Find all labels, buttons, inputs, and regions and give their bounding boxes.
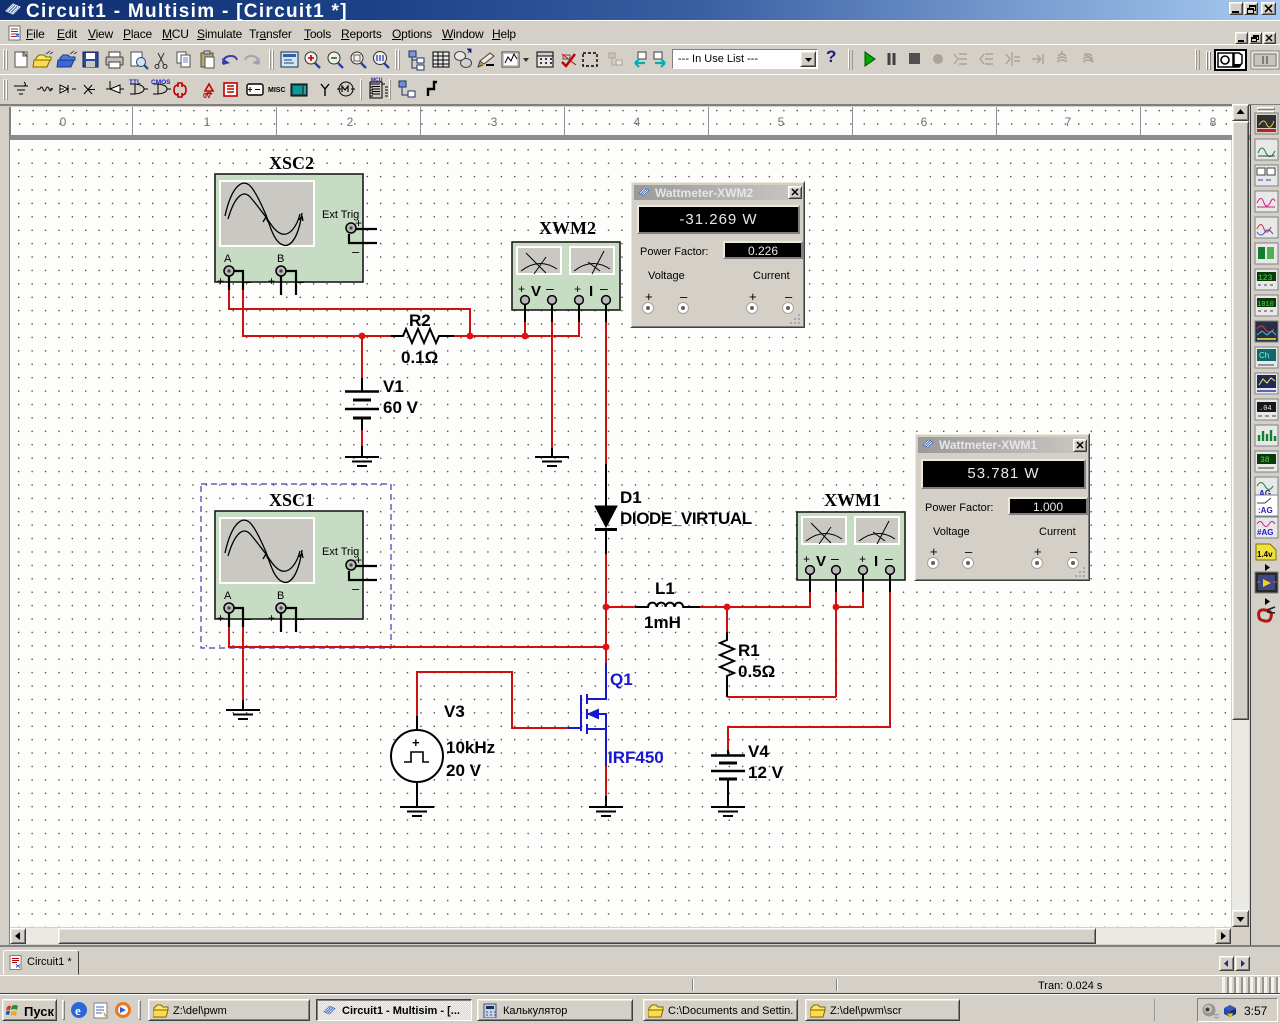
svg-text:XSC2: XSC2 xyxy=(269,153,314,173)
svg-text:3: 3 xyxy=(491,115,498,129)
new xyxy=(15,52,27,67)
vertical scrollbar xyxy=(1232,104,1249,927)
svg-text:–: – xyxy=(297,611,305,626)
svg-text:A: A xyxy=(224,590,232,602)
svg-text:0v: 0v xyxy=(203,93,211,100)
svg-text:B: B xyxy=(277,253,284,265)
svg-text:Ext Trig: Ext Trig xyxy=(322,209,359,221)
wire XWM1 -I to V4 xyxy=(728,592,890,750)
svg-text:B: B xyxy=(277,590,284,602)
wire R2 right to XWM2 +I xyxy=(454,322,579,336)
svg-text:–: – xyxy=(885,550,893,566)
diode D1 xyxy=(595,464,617,554)
svg-text:V: V xyxy=(816,553,826,570)
grapher xyxy=(502,52,519,67)
database xyxy=(455,49,472,68)
wire XSC1 A- to ground xyxy=(242,627,244,700)
pulse source V3 xyxy=(391,716,443,796)
postprocessor xyxy=(537,52,553,67)
svg-text:1.4v: 1.4v xyxy=(1257,550,1273,559)
print xyxy=(106,52,123,68)
svg-text:Ext Trig: Ext Trig xyxy=(322,546,359,558)
ground V1 xyxy=(345,446,379,466)
svg-text:+: + xyxy=(803,552,810,566)
toolbar row 1 xyxy=(0,44,1280,74)
svg-text:4: 4 xyxy=(634,115,641,129)
svg-text::AG: :AG xyxy=(1258,506,1273,515)
svg-text:MCU: MCU xyxy=(371,78,383,84)
ground V3 xyxy=(400,781,434,816)
oscilloscope XSC1 xyxy=(215,511,377,632)
svg-text:L1: L1 xyxy=(655,579,675,598)
svg-text:10kHz: 10kHz xyxy=(446,738,495,757)
svg-text:V4: V4 xyxy=(748,742,769,761)
right instruments toolbar xyxy=(1250,105,1280,945)
inductor L1 xyxy=(635,603,700,607)
wire R1 bottom to XWM1 -V xyxy=(727,696,836,698)
XSC2 channel A minus pin xyxy=(234,271,243,290)
main window title bar xyxy=(0,0,1280,20)
svg-text:#AG: #AG xyxy=(1257,528,1273,537)
paste xyxy=(201,51,214,68)
open project xyxy=(57,51,77,67)
zoom in xyxy=(305,52,320,68)
svg-text:e: e xyxy=(75,1003,81,1018)
horizontal ruler xyxy=(10,107,1232,135)
ground XSC1 A- xyxy=(226,700,260,719)
svg-text:8: 8 xyxy=(1210,115,1217,129)
red gap V1 bottom xyxy=(361,430,363,446)
svg-text:CMOS: CMOS xyxy=(151,79,171,86)
ground V4 xyxy=(711,779,745,816)
svg-text:1mH: 1mH xyxy=(644,613,681,632)
svg-text:V3: V3 xyxy=(444,702,465,721)
wire XWM1 +I to -V node xyxy=(836,592,863,607)
wire XWM1 -V vertical xyxy=(835,592,837,697)
svg-text:XWM1: XWM1 xyxy=(824,490,881,510)
svg-text:–: – xyxy=(831,550,839,566)
svg-text:60 V: 60 V xyxy=(383,398,419,417)
svg-text:Q1: Q1 xyxy=(610,670,633,689)
save xyxy=(83,52,98,67)
wire D1 cathode to MOSFET drain xyxy=(605,554,607,663)
toolbar row 2 xyxy=(0,74,1280,105)
svg-text:20 V: 20 V xyxy=(446,761,482,780)
svg-text:–: – xyxy=(352,581,360,596)
resistor R1 xyxy=(720,632,734,697)
XSC2 channel A plus pin xyxy=(228,276,230,290)
svg-text:1: 1 xyxy=(204,115,211,129)
svg-text:XSC1: XSC1 xyxy=(269,490,314,510)
wire XWM2 +V down xyxy=(524,322,526,336)
wire V3 to Q1 gate xyxy=(417,672,568,728)
svg-text:0: 0 xyxy=(60,115,67,129)
wire XSC2 A+ to R2 right node xyxy=(229,290,470,336)
wire L1 left xyxy=(606,606,635,608)
ground XWM2 -V xyxy=(535,448,569,466)
preview xyxy=(131,52,148,69)
junction L1 R1 xyxy=(724,604,731,611)
svg-text:–: – xyxy=(546,280,554,296)
XSC1 channel A plus pin xyxy=(228,613,230,627)
svg-text:V1: V1 xyxy=(383,377,404,396)
junction XSC1 node xyxy=(603,644,610,651)
svg-text:–: – xyxy=(297,274,305,289)
svg-text:0.1Ω: 0.1Ω xyxy=(401,348,438,367)
left margin strip xyxy=(9,107,10,945)
hierarchy xyxy=(409,51,424,70)
wire R1 node to XWM1 +V xyxy=(727,592,810,607)
svg-text:A: A xyxy=(224,253,232,265)
svg-text:–: – xyxy=(244,611,252,626)
horizontal scrollbar xyxy=(10,928,1231,944)
svg-text:2: 2 xyxy=(347,115,354,129)
svg-text:5: 5 xyxy=(778,115,785,129)
wattmeter XWM1 xyxy=(797,512,905,592)
Wattmeter-XWM1 dialog xyxy=(914,433,1090,581)
svg-text:1010: 1010 xyxy=(1257,301,1274,309)
wire Q1 source red xyxy=(605,766,607,796)
svg-text:7: 7 xyxy=(1065,115,1072,129)
junction XWM1 -V xyxy=(833,604,840,611)
Wattmeter-XWM2 dialog xyxy=(630,181,805,328)
svg-text:–: – xyxy=(600,280,608,296)
svg-text:Ch: Ch xyxy=(1259,351,1269,360)
transfer (disabled) xyxy=(609,53,622,65)
svg-text:38: 38 xyxy=(1260,456,1270,465)
copy xyxy=(177,52,190,67)
sheet tab row xyxy=(0,947,1280,975)
svg-text:+: + xyxy=(217,611,224,625)
svg-text:0.5Ω: 0.5Ω xyxy=(738,662,775,681)
resistor R2 xyxy=(391,329,454,343)
svg-text:+: + xyxy=(268,274,275,288)
svg-text:I: I xyxy=(589,283,593,300)
svg-text:+: + xyxy=(412,735,420,750)
wire XSC2 A- to R2 left xyxy=(243,290,391,336)
wire XWM2 -V to ground xyxy=(551,322,553,448)
ruler lower bar xyxy=(10,135,1250,140)
svg-text:+: + xyxy=(518,282,525,296)
svg-text:R1: R1 xyxy=(738,641,760,660)
ERC xyxy=(562,54,576,66)
zoom out xyxy=(328,52,343,68)
svg-text:123: 123 xyxy=(1258,274,1273,283)
XSC1 channel A minus pin xyxy=(234,608,243,627)
ground Q1 source xyxy=(589,796,623,816)
sheet bottom border xyxy=(0,945,1280,947)
svg-text:XWM2: XWM2 xyxy=(539,218,596,238)
cut xyxy=(155,53,167,69)
wire XSC1 A+ to drain node xyxy=(229,627,606,647)
battery V1 xyxy=(345,378,379,446)
open xyxy=(33,51,53,67)
oscilloscope XSC2 xyxy=(215,174,377,295)
region select xyxy=(583,53,597,66)
svg-text:–: – xyxy=(244,274,252,289)
edge line under toolbars xyxy=(0,105,1280,107)
svg-text:.04: .04 xyxy=(1259,405,1272,413)
svg-text:TTL: TTL xyxy=(129,79,141,86)
menu bar xyxy=(0,20,1280,44)
svg-text:+: + xyxy=(859,552,866,566)
battery V4 xyxy=(711,750,745,784)
svg-text:–: – xyxy=(352,244,360,259)
junction L1 drain xyxy=(603,604,610,611)
svg-text:IRF450: IRF450 xyxy=(608,748,664,767)
taskbar xyxy=(0,994,1280,1024)
junction R2-V1 xyxy=(359,333,366,340)
zoom area xyxy=(351,52,366,68)
status bar xyxy=(0,975,1280,994)
redo xyxy=(245,56,260,65)
zoom full xyxy=(374,52,390,69)
wire V1 branch xyxy=(361,336,363,378)
svg-text:+: + xyxy=(574,282,581,296)
mosfet Q1 xyxy=(568,663,606,766)
wire XWM2 -I down to D1 xyxy=(605,322,607,464)
svg-text:V: V xyxy=(531,283,541,300)
selection box around XSC1 xyxy=(201,484,391,648)
properties window xyxy=(281,52,298,67)
junction R2 right xyxy=(467,333,474,340)
svg-text:R2: R2 xyxy=(409,311,431,330)
backannotate xyxy=(635,52,646,67)
canvas sheet xyxy=(10,140,1231,927)
svg-text:12 V: 12 V xyxy=(748,763,784,782)
wire L1 right to R1 node xyxy=(700,606,727,608)
wattmeter XWM2 xyxy=(512,242,620,322)
forward annotate xyxy=(654,52,665,67)
svg-text:DIODE_VIRTUAL: DIODE_VIRTUAL xyxy=(620,509,752,528)
svg-text:+: + xyxy=(217,274,224,288)
svg-text:D1: D1 xyxy=(620,488,642,507)
svg-text:MISC: MISC xyxy=(268,87,286,94)
svg-text:+: + xyxy=(268,611,275,625)
wire R1 top lead xyxy=(726,607,728,632)
svg-text:I: I xyxy=(874,553,878,570)
undo xyxy=(222,56,237,65)
spreadsheet xyxy=(433,52,449,67)
svg-text:6: 6 xyxy=(921,115,928,129)
wizard xyxy=(478,53,494,67)
In Use List combo xyxy=(672,49,818,69)
junction XWM2 +V xyxy=(522,333,529,340)
